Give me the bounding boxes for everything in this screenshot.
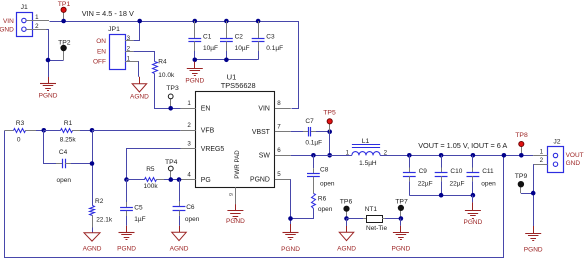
J1 pin 1 number xyxy=(35,14,39,21)
U1 pin name VREG5 xyxy=(201,146,225,153)
svg-text:TPS56628: TPS56628 xyxy=(221,81,256,90)
U1 pin 4 number xyxy=(187,172,191,179)
wire VFB node down to R2 xyxy=(92,130,94,206)
U1 pin 4 stub PG xyxy=(180,179,196,181)
junction dot TP7 node xyxy=(399,216,404,221)
R1 label xyxy=(64,120,73,127)
capacitor C11 xyxy=(467,155,480,195)
U1 pin name PGND xyxy=(250,177,270,184)
capacitor C6 xyxy=(173,180,186,226)
wire U1 PGND pin down xyxy=(290,179,292,224)
C3 label xyxy=(266,34,275,41)
svg-text:PGND: PGND xyxy=(185,78,204,85)
svg-text:VIN: VIN xyxy=(3,18,14,25)
test point TP8 label xyxy=(515,132,528,139)
C4 label xyxy=(59,149,68,156)
junction dot J1 ground node xyxy=(46,58,51,63)
resistor R4 xyxy=(153,62,158,74)
L1 value 1.5µH xyxy=(359,160,377,167)
J1 pin 2 number xyxy=(35,23,39,30)
svg-text:0: 0 xyxy=(17,136,21,143)
svg-text:PG: PG xyxy=(201,177,211,184)
svg-text:22µF: 22µF xyxy=(418,180,433,187)
svg-text:C8: C8 xyxy=(320,167,329,174)
capacitor C9 xyxy=(403,155,416,195)
capacitor C7 xyxy=(291,127,330,137)
C9 value xyxy=(418,180,433,187)
wire J2 pin 2 to ground xyxy=(533,164,535,226)
svg-text:J2: J2 xyxy=(553,139,560,146)
test point TP6 xyxy=(344,206,349,219)
wire R6 to U1 PGND pin xyxy=(291,209,314,219)
capacitor C10 xyxy=(435,155,448,195)
wire C11 ground down xyxy=(472,195,474,202)
C7 value 0.1µF xyxy=(305,140,322,147)
C6 value open xyxy=(185,216,200,223)
wire R4 to U1 EN pin xyxy=(155,74,181,109)
svg-text:0.1µF: 0.1µF xyxy=(305,140,322,147)
U1 pin name VBST xyxy=(252,129,271,136)
test point TP2 label xyxy=(58,39,71,46)
U1 pin 5 number xyxy=(277,171,281,178)
JP1 pin 2 number xyxy=(127,45,131,52)
ground PGND at input caps xyxy=(185,62,204,85)
svg-text:8: 8 xyxy=(277,100,281,107)
svg-text:NT1: NT1 xyxy=(365,206,378,213)
svg-text:TP3: TP3 xyxy=(166,85,179,92)
svg-text:VREG5: VREG5 xyxy=(201,146,225,153)
wire JP1 pin2 to R4 xyxy=(134,52,155,62)
U1 pin 8 number xyxy=(277,100,281,107)
junction dot C1 ground xyxy=(193,58,198,63)
junction dot C10 ground xyxy=(439,193,444,198)
U1 pin 6 stub SW xyxy=(275,155,291,157)
R5 value 100k xyxy=(144,183,159,190)
J2 pin 1 number xyxy=(540,148,544,155)
test point TP7 label xyxy=(395,198,408,205)
junction dot TP6 node xyxy=(344,216,349,221)
junction dot C4-R2 node xyxy=(90,161,95,166)
svg-text:PGND: PGND xyxy=(117,245,136,252)
net label VOUT xyxy=(418,141,507,150)
connector J2 xyxy=(533,147,563,173)
svg-text:1: 1 xyxy=(540,148,544,155)
svg-text:1: 1 xyxy=(35,14,39,21)
svg-text:VIN = 4.5 - 18 V: VIN = 4.5 - 18 V xyxy=(82,9,134,18)
svg-text:2: 2 xyxy=(35,23,39,30)
svg-text:PGND: PGND xyxy=(281,246,300,253)
svg-text:4: 4 xyxy=(187,172,191,179)
R3 label xyxy=(16,120,25,127)
svg-text:PGND: PGND xyxy=(226,218,245,225)
svg-text:2: 2 xyxy=(540,157,544,164)
JP1 EN label xyxy=(97,48,106,55)
C11 label xyxy=(482,168,494,175)
svg-text:R4: R4 xyxy=(158,59,167,66)
junction dot TP3 on EN wire xyxy=(168,106,173,111)
U1 pin name SW xyxy=(259,153,271,160)
test point TP4 label xyxy=(165,159,178,166)
J2 VOUT pin label xyxy=(566,152,584,159)
svg-text:1: 1 xyxy=(127,56,131,63)
U1 pin 6 number xyxy=(277,147,281,154)
op-amp U1 outline xyxy=(196,92,275,188)
JP1 pin 1 number xyxy=(127,56,131,63)
C6 label xyxy=(186,204,195,211)
svg-text:PGND: PGND xyxy=(524,246,543,253)
test point TP1 label xyxy=(58,1,71,8)
J1 GND pin label xyxy=(0,27,14,34)
resistor R1 xyxy=(44,129,92,133)
wire SW to L1 xyxy=(291,155,352,157)
JP1 pin 3 number xyxy=(127,35,131,42)
ground AGND at JP1 pin1 xyxy=(130,84,149,101)
svg-text:J1: J1 xyxy=(21,4,28,11)
C10 value xyxy=(450,180,465,187)
J1 VIN pin label xyxy=(3,18,14,25)
resistor R3 xyxy=(5,129,44,133)
svg-text:C3: C3 xyxy=(266,34,275,41)
C4 value open xyxy=(57,177,72,184)
junction dot TP9 on J2 ground wire xyxy=(531,191,536,196)
R5 label xyxy=(146,166,155,173)
U1 pin name VIN xyxy=(258,106,270,113)
capacitor C1 xyxy=(188,21,201,60)
ground AGND at C6 xyxy=(170,226,189,253)
R6 value open xyxy=(318,206,333,213)
L1 pin 1 number xyxy=(346,149,350,156)
test point TP9 label xyxy=(515,173,528,180)
resistor R5 xyxy=(127,178,181,182)
resistor R6 xyxy=(312,182,316,209)
svg-text:2: 2 xyxy=(187,122,191,129)
U1 part number TPS56628 xyxy=(221,81,256,90)
wire L1 to J2 VOUT rail xyxy=(380,155,533,157)
R6 label xyxy=(318,195,327,202)
svg-text:R2: R2 xyxy=(95,198,104,205)
U1 pin name VFB xyxy=(201,128,215,135)
svg-text:GND: GND xyxy=(566,160,581,167)
ground PGND at J1 xyxy=(39,77,58,100)
svg-text:VFB: VFB xyxy=(201,128,215,135)
junction dot VREG5-C5 node xyxy=(124,177,129,182)
svg-text:C7: C7 xyxy=(305,118,314,125)
svg-text:AGND: AGND xyxy=(130,93,149,100)
U1 pin 7 number xyxy=(277,124,281,131)
svg-text:JP1: JP1 xyxy=(108,26,120,33)
junction dot feedback node on VOUT rail xyxy=(502,153,507,158)
svg-text:PWR PAD: PWR PAD xyxy=(234,150,241,179)
C1 value xyxy=(203,45,218,52)
connector J1 label xyxy=(21,4,28,11)
svg-text:1: 1 xyxy=(346,149,350,156)
svg-text:0.1µF: 0.1µF xyxy=(266,45,283,52)
junction dot TP8 on VOUT rail xyxy=(519,153,524,158)
L1 pin 2 number xyxy=(384,149,388,156)
ground PGND at J2 xyxy=(524,226,543,253)
ground PGND at NT1 xyxy=(392,226,411,253)
junction dot C8 on SW line xyxy=(311,153,316,158)
junction dot C7-TP5 node xyxy=(327,129,332,134)
svg-text:TP9: TP9 xyxy=(515,173,528,180)
svg-text:TP7: TP7 xyxy=(395,198,408,205)
svg-text:10.0k: 10.0k xyxy=(158,72,175,79)
svg-text:9: 9 xyxy=(229,193,235,196)
JP1 OFF label xyxy=(93,59,106,66)
svg-text:AGND: AGND xyxy=(170,245,189,252)
C2 value xyxy=(235,45,250,52)
svg-text:PGND: PGND xyxy=(464,219,483,226)
svg-text:C4: C4 xyxy=(59,149,68,156)
jumper JP1 xyxy=(110,35,139,70)
test point TP4 xyxy=(168,166,173,180)
svg-text:TP4: TP4 xyxy=(165,159,178,166)
U1 pin 3 number xyxy=(187,140,191,147)
R3 value 0 xyxy=(17,136,21,143)
ground AGND at R2 xyxy=(83,233,102,253)
junction dot C6 on PG wire xyxy=(177,177,182,182)
NT1 value Net-Tie xyxy=(366,225,387,232)
wire output caps ground rail xyxy=(409,195,473,197)
U1 pin 2 stub VFB xyxy=(180,130,196,132)
svg-text:C11: C11 xyxy=(482,168,494,175)
svg-text:PGND: PGND xyxy=(39,93,58,100)
wire C7 node down to SW xyxy=(329,132,331,156)
inductor L1 label xyxy=(362,138,370,145)
capacitor C3 xyxy=(252,21,265,60)
junction dot C9 on VOUT rail xyxy=(407,153,412,158)
svg-text:R6: R6 xyxy=(318,195,327,202)
connector J2 label xyxy=(553,139,560,146)
junction dot TP4 on PG wire xyxy=(169,177,174,182)
svg-text:2: 2 xyxy=(127,45,131,52)
junction dot C3 on VIN rail xyxy=(256,19,261,24)
C8 label xyxy=(320,167,329,174)
U1 pin 2 number xyxy=(187,122,191,129)
U1 pin 7 stub VBST xyxy=(275,131,291,133)
test point TP6 label xyxy=(340,198,353,205)
svg-text:VIN: VIN xyxy=(258,106,270,113)
svg-text:22µF: 22µF xyxy=(450,180,465,187)
U1 pin 1 stub EN xyxy=(180,108,196,110)
C8 value open xyxy=(320,181,335,188)
svg-text:C1: C1 xyxy=(203,34,212,41)
ground AGND at NT1 xyxy=(337,226,356,253)
svg-text:PGND: PGND xyxy=(250,177,270,184)
test point TP1 xyxy=(61,7,66,21)
net-tie NT1 xyxy=(347,216,401,223)
capacitor C4 xyxy=(44,131,93,169)
svg-text:OFF: OFF xyxy=(93,59,106,66)
net-tie NT1 label xyxy=(365,206,378,213)
svg-text:SW: SW xyxy=(259,153,271,160)
svg-text:open: open xyxy=(318,206,333,213)
ground PGND at output caps xyxy=(464,202,483,226)
test point TP5 label xyxy=(323,110,336,117)
svg-text:R3: R3 xyxy=(16,120,25,127)
U1 PWR PAD pin 9 stub xyxy=(229,187,236,204)
junction dot R1-VFB node xyxy=(90,128,95,133)
svg-text:ON: ON xyxy=(96,38,106,45)
svg-text:C2: C2 xyxy=(235,34,244,41)
test point TP3 xyxy=(168,94,173,108)
C5 value 1µF xyxy=(134,216,145,223)
svg-text:1.5µH: 1.5µH xyxy=(359,160,377,167)
svg-text:TP5: TP5 xyxy=(323,110,336,117)
svg-text:TP1: TP1 xyxy=(58,1,71,8)
wire R2 to AGND xyxy=(92,215,94,233)
capacitor C8 xyxy=(307,155,320,181)
junction dot TP1 on VIN rail xyxy=(61,19,66,24)
junction dot R3-R1 node xyxy=(42,128,47,133)
junction dot JP1 pin3 on VIN rail xyxy=(137,19,142,24)
svg-text:open: open xyxy=(481,180,496,187)
svg-text:1µF: 1µF xyxy=(134,216,145,223)
C5 label xyxy=(134,204,143,211)
svg-text:open: open xyxy=(57,177,72,184)
jumper JP1 label xyxy=(108,26,120,33)
JP1 ON label xyxy=(96,38,106,45)
R4 label xyxy=(158,59,167,66)
svg-text:GND: GND xyxy=(0,27,14,34)
U1 pin 5 stub PGND xyxy=(275,179,291,181)
svg-text:Net-Tie: Net-Tie xyxy=(366,225,387,232)
J2 pin 2 number xyxy=(540,157,544,164)
wire TP6 node down xyxy=(346,219,348,227)
C10 label xyxy=(450,168,462,175)
ground PGND at C5 xyxy=(117,226,136,253)
C11 value xyxy=(481,180,496,187)
test point TP5 xyxy=(327,119,332,132)
wire TP7 node down xyxy=(400,219,402,226)
svg-text:3: 3 xyxy=(187,140,191,147)
svg-text:VOUT = 1.05 V, IOUT = 6 A: VOUT = 1.05 V, IOUT = 6 A xyxy=(418,141,507,150)
test point TP9 xyxy=(518,181,524,193)
net label VIN xyxy=(82,9,134,18)
svg-text:PGND: PGND xyxy=(392,246,411,253)
svg-text:TP6: TP6 xyxy=(340,198,353,205)
C3 value xyxy=(266,45,283,52)
svg-text:AGND: AGND xyxy=(337,246,356,253)
svg-text:7: 7 xyxy=(277,124,281,131)
C1 label xyxy=(203,34,212,41)
svg-text:VBST: VBST xyxy=(252,129,271,136)
U1 pin 1 number xyxy=(187,100,191,107)
capacitor C2 xyxy=(220,21,233,60)
svg-text:C10: C10 xyxy=(450,168,462,175)
U1 pin 8 stub VIN xyxy=(275,108,291,110)
test point TP7 xyxy=(398,205,403,218)
wire VOUT feedback loop from output node down, along bottom, up to R3 xyxy=(5,131,504,258)
svg-text:C6: C6 xyxy=(186,204,195,211)
wire U1 VREG5 pin to C5 node xyxy=(127,149,181,180)
junction dot C7 on SW line xyxy=(327,153,332,158)
svg-text:open: open xyxy=(185,216,200,223)
junction dot C2 on VIN rail xyxy=(224,19,229,24)
junction dot U1 PGND node xyxy=(288,216,293,221)
U1 pin name PWR PAD rotated xyxy=(234,150,241,179)
svg-text:EN: EN xyxy=(97,48,106,55)
test point TP8 xyxy=(519,141,524,155)
R1 value 8.25k xyxy=(60,136,77,143)
svg-text:AGND: AGND xyxy=(83,245,102,252)
inductor L1 xyxy=(352,145,380,156)
C9 label xyxy=(419,168,428,175)
junction dot C11 ground xyxy=(471,193,476,198)
svg-text:10µF: 10µF xyxy=(203,45,218,52)
svg-text:R5: R5 xyxy=(146,166,155,173)
svg-text:C9: C9 xyxy=(419,168,428,175)
svg-text:5: 5 xyxy=(277,171,281,178)
J2 GND pin label xyxy=(566,160,581,167)
svg-text:C5: C5 xyxy=(134,204,143,211)
svg-text:3: 3 xyxy=(127,35,131,42)
svg-text:100k: 100k xyxy=(144,183,159,190)
U1 refdes label xyxy=(227,73,237,82)
svg-text:6: 6 xyxy=(277,147,281,154)
wire J1 pin2 to PGND xyxy=(47,30,49,78)
svg-text:10µF: 10µF xyxy=(235,45,250,52)
wire TP9 to J2 ground xyxy=(521,193,533,195)
resistor R2 xyxy=(90,206,95,216)
test point TP2 xyxy=(61,45,67,60)
R2 value 22.1k xyxy=(96,217,113,224)
ground PGND at U1 PWR PAD xyxy=(226,204,245,225)
wire TP2 to J1 ground node xyxy=(48,60,64,62)
junction dot C1 on VIN rail xyxy=(193,19,198,24)
wire JP1 pin3 to VIN rail xyxy=(134,22,140,41)
wire VIN top rail from J1 to U1 VIN pin xyxy=(50,22,299,109)
svg-text:TP8: TP8 xyxy=(515,132,528,139)
svg-text:VOUT: VOUT xyxy=(566,152,584,159)
U1 pin name EN xyxy=(201,106,211,113)
C7 label xyxy=(305,118,314,125)
junction dot C10 on VOUT rail xyxy=(439,153,444,158)
ground PGND at U1 pin 5 xyxy=(281,224,300,253)
U1 pin name PG xyxy=(201,177,211,184)
C2 label xyxy=(235,34,244,41)
svg-text:1: 1 xyxy=(187,100,191,107)
connector J1 xyxy=(17,13,50,37)
svg-text:open: open xyxy=(320,181,335,188)
wire R1 node to U1 VFB pin xyxy=(92,130,180,132)
capacitor C5 xyxy=(120,180,133,226)
test point TP3 label xyxy=(166,85,179,92)
junction dot C11 on VOUT rail xyxy=(471,153,476,158)
R4 value 10.0k xyxy=(158,72,175,79)
wire JP1 pin1 down to AGND xyxy=(139,61,140,83)
svg-text:EN: EN xyxy=(201,106,211,113)
svg-text:22.1k: 22.1k xyxy=(96,217,113,224)
wire input caps ground rail xyxy=(195,59,258,61)
svg-text:8.25k: 8.25k xyxy=(60,136,77,143)
R2 label xyxy=(95,198,104,205)
svg-text:R1: R1 xyxy=(64,120,73,127)
U1 pin 3 stub VREG5 xyxy=(180,148,196,150)
junction dot C2 ground xyxy=(224,58,229,63)
